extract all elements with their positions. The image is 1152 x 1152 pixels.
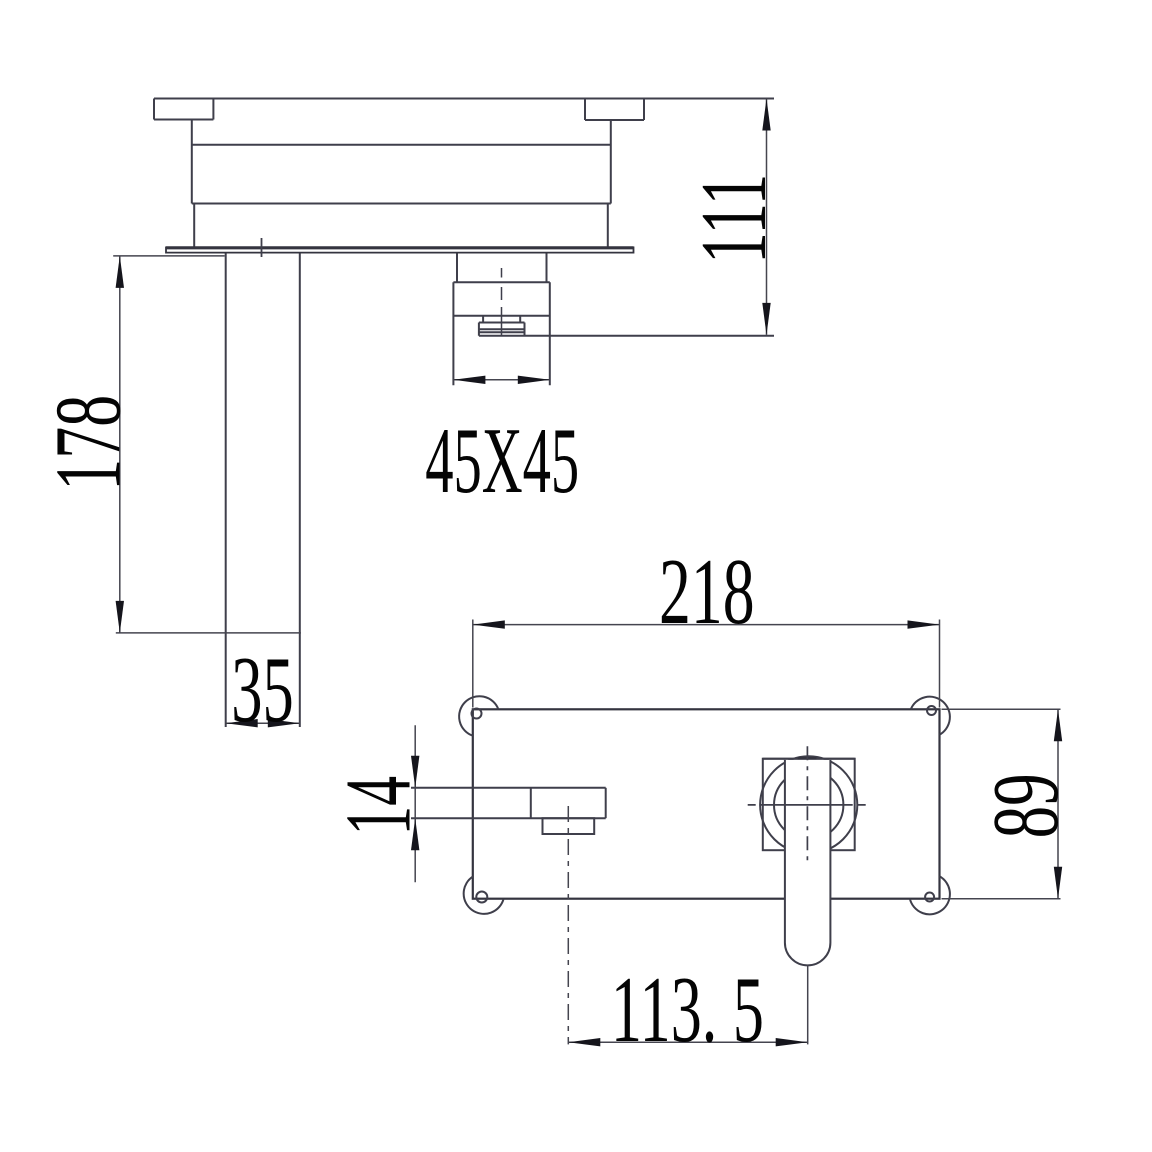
svg-text:113. 5: 113. 5 <box>611 958 764 1062</box>
svg-text:89: 89 <box>974 773 1078 838</box>
svg-text:14: 14 <box>326 776 430 836</box>
svg-text:218: 218 <box>659 540 755 644</box>
svg-text:111: 111 <box>682 174 786 264</box>
svg-text:45X45: 45X45 <box>425 409 579 513</box>
svg-text:178: 178 <box>37 395 141 491</box>
svg-text:35: 35 <box>231 638 294 742</box>
